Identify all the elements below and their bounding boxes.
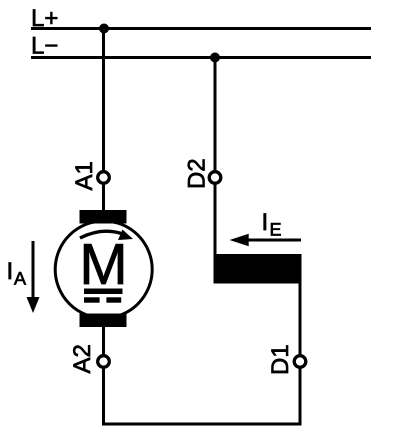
field winding [214, 254, 302, 284]
dc bar dashed segment 1 [84, 297, 100, 302]
dc bar dashed segment 2 [106, 297, 121, 302]
wire A2 to bottom corner [102, 368, 105, 426]
dc bar solid [84, 289, 123, 295]
wire D2 to L- junction [214, 58, 217, 172]
label IE [264, 214, 281, 236]
junction on L+ [99, 24, 109, 34]
top brush [80, 210, 127, 224]
current arrow IE [230, 234, 302, 247]
label L- [33, 37, 57, 54]
terminal A1 [98, 172, 110, 184]
bottom wire [102, 423, 302, 426]
label L+ [33, 10, 57, 27]
junction on L- [210, 53, 220, 63]
supply rail L- [31, 56, 371, 59]
terminal A2 [98, 356, 110, 368]
label D2 [188, 160, 205, 188]
wire A1 to motor [102, 184, 105, 212]
label IA [9, 263, 26, 285]
wire field winding to D2 [214, 184, 217, 255]
terminal D1 [294, 356, 306, 368]
bottom brush [80, 314, 127, 328]
label A2 [73, 345, 90, 373]
wire motor to A2 [102, 326, 105, 355]
label A1 [76, 162, 93, 190]
motor M1 [55, 210, 152, 327]
letter M [84, 244, 123, 284]
motor body circle [55, 221, 152, 318]
label D1 [272, 346, 289, 374]
wire L+ junction to A1 [102, 29, 105, 172]
terminal D2 [209, 172, 221, 184]
rotation arrow [80, 230, 133, 241]
current arrow IA [27, 241, 40, 313]
wire D1 to field winding [299, 282, 302, 356]
supply rail L+ [31, 27, 371, 30]
wire bottom corner to D1 [299, 368, 302, 426]
